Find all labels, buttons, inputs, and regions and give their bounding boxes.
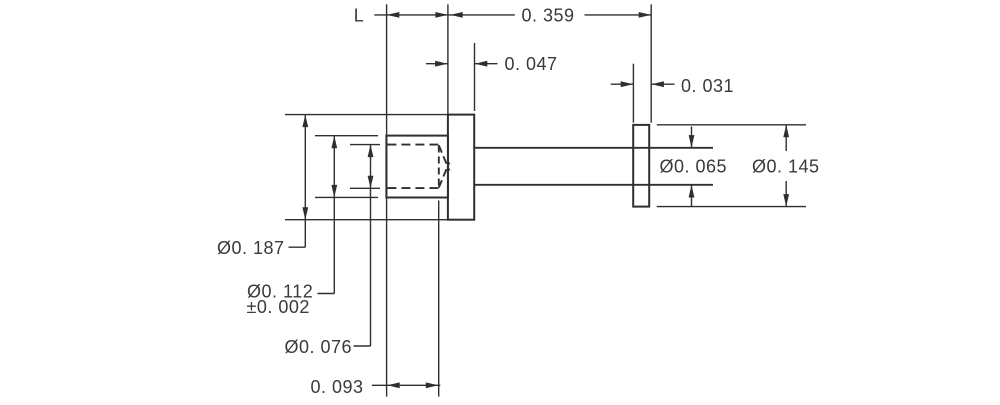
arrowhead 0.076 top [368, 145, 374, 158]
dimension 0.145 lower segment [785, 181, 787, 207]
extension line flange left face [447, 4, 449, 114]
extension line 0.187 top (to flange top) [285, 114, 448, 116]
extension line 0.112 bottom [315, 196, 378, 198]
svg-text:0. 093: 0. 093 [311, 377, 364, 397]
dimension 0.093 line [372, 384, 441, 386]
extension line 0.145 top [657, 124, 806, 126]
svg-text:Ø0. 065: Ø0. 065 [660, 156, 728, 176]
extension line flange right face [474, 43, 476, 111]
dimension 0.065 lower arrow line [691, 185, 693, 207]
arrowhead L right (points right at flange face) [435, 12, 448, 18]
dimension 0.065 upper arrow line [691, 127, 693, 148]
arrowhead 0.187 bottom (points down) [302, 207, 308, 220]
dimension 0.076 vertical line [370, 145, 372, 346]
arrowhead 0.112 top [331, 136, 337, 149]
svg-text:Ø0. 145: Ø0. 145 [752, 156, 820, 176]
extension line 0.076 bottom [350, 187, 380, 189]
extension line 0.112 top [315, 135, 378, 137]
extension line 0.076 top [350, 144, 380, 146]
dimension 0.031 right arrow line [651, 83, 674, 85]
hidden cone drill point lower diagonal (dashed) [439, 162, 450, 187]
svg-text:0. 047: 0. 047 [505, 54, 558, 74]
body outline (rear cylinder of contact) [386, 136, 448, 198]
arrowhead 0.065 top (points down) [689, 135, 695, 148]
arrowhead 0.031 right [651, 81, 664, 87]
hidden hole end wall (dashed vertical) [438, 146, 440, 188]
arrowhead 0.145 top (points up) [783, 125, 789, 138]
flange (large collar 0.187 dia) [448, 115, 474, 220]
arrowhead 0.112 bottom [331, 185, 337, 198]
arrowhead 0.093 left (points left) [387, 382, 400, 388]
arrowhead 0.187 top (points up) [302, 115, 308, 128]
extension line hole depth right (0.093) [438, 201, 440, 397]
svg-text:0. 031: 0. 031 [681, 76, 734, 96]
dimension 0.031 left arrow line [611, 83, 634, 85]
extension line 0.145 bottom [657, 206, 806, 208]
dimension 0.112 vertical line [333, 136, 335, 294]
extension line 0.187 bottom [285, 219, 474, 221]
extension line body left edge (long vertical) [386, 4, 388, 396]
dimension 0.359 line left segment [448, 14, 515, 16]
svg-text:Ø0. 076: Ø0. 076 [285, 337, 353, 357]
arrowhead 0.359 right [639, 12, 652, 18]
dimension 0.047 right arrow line [475, 63, 498, 65]
leader 0.076 [354, 345, 371, 347]
arrowhead 0.145 bottom (points down) [783, 194, 789, 207]
arrowhead 0.047 left (outside, points right) [435, 61, 448, 67]
dimension L line [374, 14, 448, 16]
arrowhead 0.047 right (outside, points left) [475, 61, 488, 67]
arrowhead 0.076 bottom [368, 176, 374, 189]
svg-text:Ø0. 187: Ø0. 187 [217, 238, 285, 258]
arrowhead 0.065 bottom (points up) [689, 185, 695, 198]
hidden hole top edge (dashed) [387, 144, 438, 146]
arrowhead 0.031 left [621, 81, 634, 87]
extension line small collar left face [632, 64, 634, 123]
leader 0.187 [289, 246, 306, 248]
shaft bottom edge [474, 184, 713, 186]
svg-text:±0. 002: ±0. 002 [247, 297, 310, 317]
extension line small collar right face [650, 4, 652, 122]
arrowhead 0.093 right (points right) [426, 382, 439, 388]
svg-text:0. 359: 0. 359 [522, 6, 575, 26]
shaft top edge (pin 0.065 dia) [474, 147, 713, 149]
dimension 0.187 vertical line [304, 115, 306, 248]
dimension 0.145 upper segment [785, 125, 787, 151]
arrowhead 0.359 left [450, 12, 463, 18]
dimension 0.047 left arrow line [426, 63, 448, 65]
svg-text:L: L [354, 6, 365, 26]
dimension 0.359 line right segment [585, 14, 652, 16]
leader 0.112 [318, 293, 335, 295]
arrowhead L left (points left at body edge) [387, 12, 400, 18]
hidden hole bottom edge (dashed) [387, 187, 438, 189]
hidden cone drill point upper diagonal (dashed) [439, 145, 450, 170]
small collar (0.145 dia) [633, 125, 649, 207]
